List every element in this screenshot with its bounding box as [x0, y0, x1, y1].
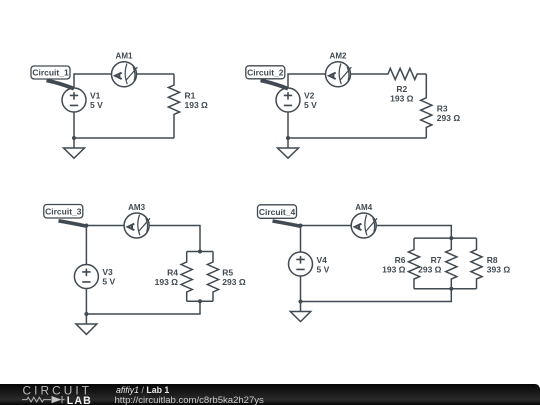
- wire: [149, 226, 200, 252]
- ground: [64, 138, 85, 158]
- resistor R5: [207, 252, 218, 302]
- svg-text:Circuit_3: Circuit_3: [45, 207, 82, 217]
- wire: [301, 289, 452, 302]
- ammeter AM1: [112, 62, 138, 87]
- svg-text:Circuit_1: Circuit_1: [32, 68, 69, 78]
- wire: [85, 289, 87, 315]
- svg-text:V1: V1: [90, 91, 101, 101]
- node label Circuit_3: [44, 205, 87, 227]
- svg-text:AM4: AM4: [355, 203, 372, 212]
- svg-text:AM2: AM2: [330, 52, 347, 61]
- wire: [74, 74, 112, 88]
- node label Circuit_1: [31, 66, 74, 89]
- svg-text:V2: V2: [304, 91, 315, 101]
- svg-text:293 Ω: 293 Ω: [437, 113, 461, 123]
- voltage source V3: [74, 265, 98, 289]
- wire: [73, 112, 75, 138]
- resistor R2: [351, 68, 427, 79]
- voltage source V2: [276, 88, 300, 112]
- node: [72, 136, 76, 140]
- wire: [187, 251, 213, 253]
- wire: [86, 226, 124, 265]
- wire: [301, 226, 352, 253]
- ammeter AM3: [124, 213, 150, 238]
- footer title text: [116, 385, 169, 395]
- svg-text:193 Ω: 193 Ω: [185, 100, 209, 110]
- resistor R6: [408, 238, 419, 289]
- resistor R8: [471, 238, 482, 289]
- resistor R1: [168, 74, 179, 138]
- node: [299, 224, 303, 228]
- svg-text:R1: R1: [185, 90, 196, 100]
- wire: [414, 288, 477, 290]
- node: [198, 299, 202, 303]
- voltage source V1: [62, 88, 86, 112]
- wire: [187, 300, 213, 302]
- svg-text:293 Ω: 293 Ω: [418, 264, 442, 274]
- resistor R7: [446, 238, 457, 289]
- svg-text:AM3: AM3: [128, 203, 145, 212]
- wire: [288, 137, 426, 139]
- wire: [288, 74, 326, 88]
- footer url text: [115, 395, 264, 405]
- ammeter AM4: [351, 213, 377, 238]
- ground: [290, 302, 310, 322]
- svg-text:5 V: 5 V: [304, 100, 317, 110]
- svg-text:393 Ω: 393 Ω: [487, 264, 511, 274]
- svg-text:293 Ω: 293 Ω: [222, 277, 246, 287]
- svg-text:R6: R6: [395, 255, 406, 265]
- node: [198, 250, 202, 254]
- node: [84, 224, 88, 228]
- svg-text:5 V: 5 V: [102, 277, 115, 287]
- svg-text:5 V: 5 V: [90, 100, 103, 110]
- node: [299, 300, 303, 304]
- resistor R3: [421, 74, 432, 138]
- svg-text:LAB: LAB: [67, 395, 92, 405]
- node: [84, 312, 88, 316]
- wire: [376, 226, 451, 239]
- svg-text:R2: R2: [396, 84, 407, 94]
- wire: [74, 137, 174, 139]
- wire: [287, 112, 289, 138]
- svg-text:Circuit_2: Circuit_2: [247, 68, 284, 78]
- wire: [300, 276, 302, 302]
- wire: [137, 73, 175, 75]
- svg-text:Circuit_4: Circuit_4: [259, 207, 296, 217]
- svg-text:R3: R3: [437, 103, 448, 113]
- ammeter AM2: [326, 62, 352, 87]
- svg-text:193 Ω: 193 Ω: [382, 264, 406, 274]
- svg-text:193 Ω: 193 Ω: [155, 277, 179, 287]
- ground: [278, 138, 299, 158]
- svg-text:R8: R8: [487, 255, 498, 265]
- node label Circuit_4: [258, 205, 301, 226]
- resistor R4: [181, 252, 192, 302]
- svg-text:AM1: AM1: [116, 52, 133, 61]
- svg-text:V3: V3: [102, 267, 113, 277]
- node: [286, 136, 290, 140]
- node: [449, 287, 453, 291]
- svg-text:5 V: 5 V: [317, 264, 330, 274]
- CircuitLab logo: [0, 384, 110, 405]
- svg-text:193 Ω: 193 Ω: [390, 94, 414, 104]
- footer bar: [0, 384, 540, 405]
- voltage source V4: [289, 252, 313, 276]
- svg-text:R7: R7: [431, 255, 442, 265]
- node label Circuit_2: [246, 66, 288, 89]
- svg-text:V4: V4: [317, 255, 328, 265]
- svg-text:R5: R5: [222, 268, 233, 278]
- wire: [414, 237, 477, 239]
- node: [449, 236, 453, 240]
- ground: [76, 314, 97, 334]
- wire: [86, 301, 200, 314]
- svg-text:R4: R4: [167, 268, 178, 278]
